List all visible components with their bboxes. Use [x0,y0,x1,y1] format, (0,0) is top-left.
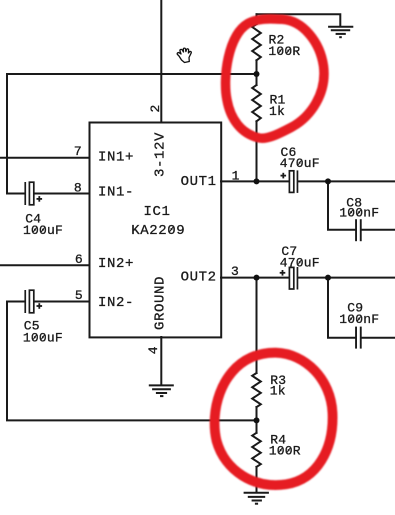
svg-text:IN2-: IN2- [98,295,134,311]
svg-text:470uF: 470uF [280,256,320,271]
svg-text:100nF: 100nF [339,312,379,327]
svg-text:IC1: IC1 [144,204,171,220]
svg-text:100uF: 100uF [23,331,63,346]
svg-text:KA2209: KA2209 [131,223,185,239]
svg-text:4: 4 [146,346,161,354]
svg-text:8: 8 [74,181,82,196]
svg-text:100uF: 100uF [23,223,63,238]
svg-text:GROUND: GROUND [152,276,168,330]
svg-text:5: 5 [75,288,83,303]
svg-text:1k: 1k [269,104,285,119]
svg-text:7: 7 [74,144,82,159]
svg-text:IN1+: IN1+ [98,149,134,165]
svg-text:OUT1: OUT1 [181,174,217,190]
svg-text:2: 2 [148,104,163,112]
svg-text:470uF: 470uF [280,156,320,171]
svg-text:3: 3 [231,264,239,279]
svg-text:OUT2: OUT2 [181,270,217,286]
svg-text:IN2+: IN2+ [98,256,134,272]
svg-text:6: 6 [75,252,83,267]
svg-text:3-12V: 3-12V [152,132,168,177]
svg-text:100nF: 100nF [339,206,379,221]
svg-text:1: 1 [232,169,240,184]
svg-text:1k: 1k [270,384,286,399]
svg-text:100R: 100R [268,44,300,59]
svg-text:IN1-: IN1- [98,184,134,200]
svg-text:100R: 100R [269,444,301,459]
